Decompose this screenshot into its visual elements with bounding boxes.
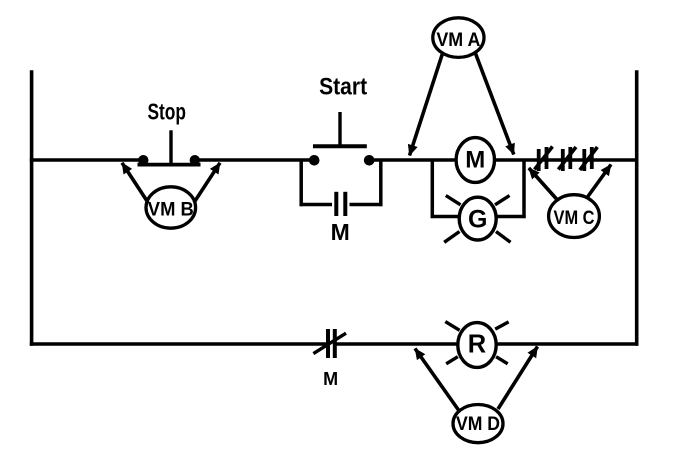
- arrow VM B to right terminal of Stop: [194, 163, 220, 203]
- wire rung1: Start contact to coil M: [369, 158, 455, 162]
- lamp G upper-left ray: [446, 196, 461, 205]
- arrow VM D to node right of lamp R: [498, 347, 538, 410]
- contact NC group 2 left plate: [561, 149, 565, 171]
- contact NC group 3 slash: [580, 147, 598, 170]
- pushbutton Start left terminal dot: [309, 155, 320, 166]
- pushbutton Start NO bridge bar: [313, 144, 367, 148]
- pushbutton Start right terminal dot: [364, 155, 375, 166]
- svg-text:VM A: VM A: [436, 30, 480, 51]
- lamp R body: [458, 323, 496, 368]
- pushbutton Stop left terminal dot: [138, 155, 148, 165]
- pushbutton Stop actuator stem: [169, 130, 172, 164]
- wire lamp G branch bottom left: [431, 215, 458, 219]
- pushbutton Start actuator stem: [338, 112, 341, 146]
- wire seal-in branch bottom right: [350, 203, 383, 207]
- arrow VM A to node right of coil M: [476, 54, 514, 155]
- coil M (motor contactor): [456, 138, 494, 183]
- svg-text:VM C: VM C: [554, 208, 595, 229]
- wire lamp G branch bottom right: [498, 215, 526, 219]
- wire rung1: coil M to right rail: [496, 158, 639, 162]
- pushbutton Stop right terminal dot: [190, 155, 200, 165]
- pushbutton Stop NC bridge bar: [138, 163, 201, 167]
- contact NC group 3 right plate: [590, 147, 594, 169]
- arrow VM A to node left of coil M: [410, 54, 443, 156]
- svg-text:G: G: [468, 206, 487, 234]
- svg-text:M: M: [323, 369, 338, 389]
- wire rung1: left rail to Stop contact: [30, 158, 144, 162]
- lamp R upper-left ray: [445, 322, 459, 331]
- svg-text:VM B: VM B: [148, 200, 194, 221]
- contact NC group 2 right plate: [568, 147, 572, 169]
- lamp R lower-right ray: [496, 357, 508, 364]
- svg-text:M: M: [465, 147, 485, 174]
- contact NC group 3 left plate: [582, 149, 586, 171]
- wire rung2: lamp R to right rail: [498, 342, 639, 346]
- arrow VM D to node left of lamp R: [415, 349, 459, 411]
- lamp G body: [459, 197, 496, 240]
- meter VM D bubble: [453, 405, 503, 443]
- svg-text:R: R: [468, 330, 486, 358]
- arrow VM C to node left of NC contacts: [529, 168, 557, 200]
- wire seal-in branch bottom left: [300, 203, 333, 207]
- lamp R lower-left ray: [446, 357, 458, 364]
- contact M1 (seal-in NO) left plate: [334, 192, 338, 216]
- wire seal-in branch right drop: [379, 160, 383, 206]
- right power rail L2: [635, 70, 639, 346]
- contact NC group 1 right plate: [545, 147, 549, 169]
- svg-text:M: M: [331, 219, 350, 245]
- wire rung2: contact M to lamp R: [336, 342, 456, 346]
- meter VM A bubble: [433, 18, 484, 58]
- contact NC group 1 left plate: [537, 149, 541, 171]
- meter VM C bubble: [549, 195, 600, 238]
- wire lamp G branch left drop: [431, 160, 435, 218]
- lamp R upper-right ray: [495, 322, 508, 329]
- lamp G lower-left ray: [444, 232, 459, 243]
- wire rung2: left rail to contact M: [30, 342, 327, 346]
- contact NC group 1 slash: [535, 147, 553, 170]
- arrow VM C to node right of NC contacts: [588, 165, 612, 198]
- left power rail L1: [30, 70, 34, 346]
- contact M2 (NC) slash: [313, 333, 346, 353]
- contact M2 (NC) left plate: [326, 329, 330, 358]
- svg-text:VM D: VM D: [456, 414, 500, 435]
- wire lamp G branch right drop: [522, 160, 526, 218]
- lamp G lower-right ray: [496, 232, 511, 243]
- contact M2 (NC) right plate: [333, 329, 337, 358]
- lamp G upper-right ray: [495, 196, 510, 205]
- wire seal-in branch left drop: [299, 160, 303, 206]
- arrow VM B to left terminal of Stop: [122, 163, 148, 203]
- wire rung1: Stop contact to Start contact: [194, 158, 315, 162]
- meter VM B bubble: [146, 187, 196, 228]
- contact M1 (seal-in NO) right plate: [343, 192, 347, 216]
- svg-text:Start: Start: [319, 73, 367, 100]
- svg-text:Stop: Stop: [147, 99, 186, 125]
- contact NC group 2 slash: [558, 147, 576, 170]
